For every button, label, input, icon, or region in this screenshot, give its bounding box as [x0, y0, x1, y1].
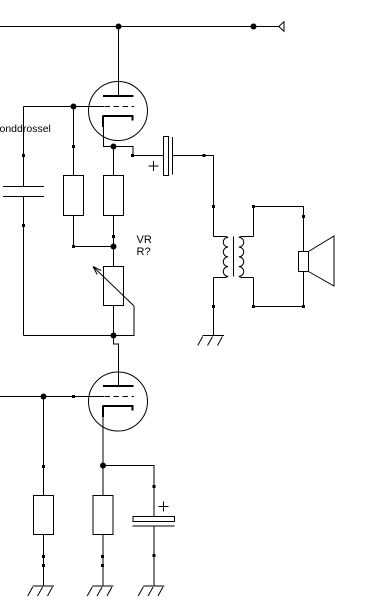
resistor R3 (grid leak V2): [34, 496, 54, 535]
wire grid resistor branch R1: [73, 107, 75, 247]
node junction below resistors: [111, 244, 117, 250]
triode V2 envelope: [89, 372, 148, 431]
label onddrossel: [0, 123, 51, 135]
wire wiper return loop: [114, 306, 135, 336]
pin dot R3 bottom lead lower: [42, 564, 45, 567]
pin dot primary top lead: [212, 205, 215, 208]
capacitor C3 plus sign: [159, 502, 169, 512]
pin dot secondary top corner: [252, 205, 255, 208]
pin dot R4 bottom lead lower: [101, 564, 104, 567]
triode V2 grid (dashed): [105, 396, 135, 398]
pin dot R4 bottom lead upper: [101, 555, 104, 558]
pin dot R1 top lead: [72, 145, 75, 148]
pin dot R2 bottom lead: [112, 235, 115, 238]
pin dot C3 bottom lead: [153, 554, 156, 557]
node junction pot bottom: [111, 333, 117, 339]
connector X1 (open triangle terminal): [279, 22, 284, 31]
capacitor C1 (onddrossel branch, plates): [3, 187, 44, 197]
capacitor C2 coupling (positive plate): [172, 137, 174, 175]
node junction grid V2: [41, 394, 47, 400]
node junction cathode V1: [111, 144, 117, 150]
wire top supply rail: [0, 26, 279, 28]
pin dot R3 top lead: [42, 465, 45, 468]
transformer T1 core: [233, 237, 235, 277]
resistor R2 (cathode resistor V1): [104, 176, 124, 216]
pin dot grid V2 lead: [72, 395, 75, 398]
loudspeaker LS1 driver: [299, 252, 309, 272]
label VR: [137, 234, 152, 246]
ground C3: [143, 585, 165, 587]
triode V2 cathode: [103, 406, 134, 418]
node junction rail-V1 plate: [116, 24, 122, 30]
wire cathode resistor / potentiometer branch: [113, 147, 115, 336]
resistor R1 (grid resistor V1): [64, 176, 84, 216]
capacitor C2 plus sign: [149, 161, 159, 171]
pin dot primary bottom lead: [212, 305, 215, 308]
capacitor C3 bypass (negative plate): [133, 517, 175, 522]
pin dot secondary bottom right corner: [302, 305, 305, 308]
triode V2 anode: [103, 385, 134, 387]
wire grid net V1 (from left corner to tube): [24, 106, 105, 108]
triode V1 cathode: [103, 116, 134, 128]
pin dot secondary bottom left corner: [252, 305, 255, 308]
potentiometer VR R? body: [104, 267, 124, 306]
pin dot speaker top lead: [302, 215, 305, 218]
pin dot R1 bottom corner: [72, 245, 75, 248]
wire plate lead V1 from rail: [118, 27, 120, 96]
pin dot R3 bottom lead upper: [42, 555, 45, 558]
resistor R4 (cathode resistor V2): [93, 496, 113, 535]
wire coupling cap output to transformer: [173, 156, 214, 237]
wire bypass cap to ground: [153, 526, 155, 586]
potentiometer VR wiper arrow: [93, 267, 134, 307]
triode V1 grid (dashed): [105, 106, 135, 108]
wire node to plate V2 (jog): [114, 336, 119, 386]
ground R3: [33, 585, 55, 587]
pin dot C2 output: [203, 154, 206, 157]
wire bottom feedback rail: [24, 335, 114, 337]
pin dot C3 top lead: [153, 485, 156, 488]
wire R1 bottom to node: [74, 246, 114, 248]
wire cathode lead V1: [104, 127, 114, 147]
pin dot choke top: [22, 154, 25, 157]
node junction rail-terminal: [251, 24, 257, 30]
triode V1 envelope: [89, 82, 148, 141]
ground transformer primary: [203, 335, 225, 337]
wire choke branch lower (capacitor to bottom rail): [23, 197, 25, 336]
wire cathode lead V2: [102, 417, 104, 586]
capacitor C3 bypass (positive plate): [133, 525, 175, 527]
wire grid leak branch R3: [43, 397, 45, 587]
node junction grid V1: [71, 104, 77, 110]
pin dot C2 input corner: [131, 154, 134, 157]
wire secondary loudspeaker loop: [254, 207, 304, 307]
node junction cathode V2: [100, 463, 106, 469]
transformer T1 secondary winding: [239, 237, 254, 278]
label R?: [137, 246, 151, 258]
transformer T1 primary winding: [214, 237, 229, 278]
wire grid net V2 (input from left edge): [0, 396, 104, 398]
triode V1 anode: [103, 95, 134, 97]
pin dot choke bottom: [22, 224, 25, 227]
ground R4: [92, 585, 114, 587]
capacitor C2 coupling (negative plate): [164, 137, 169, 176]
wire choke branch upper (left vertical to capacitor): [23, 107, 25, 187]
wire transformer primary bottom to ground: [213, 278, 215, 336]
wire cathode node V2 to bypass cap: [103, 466, 154, 517]
wire cathode node to coupling cap: [114, 147, 164, 156]
loudspeaker LS1 horn: [309, 236, 335, 286]
